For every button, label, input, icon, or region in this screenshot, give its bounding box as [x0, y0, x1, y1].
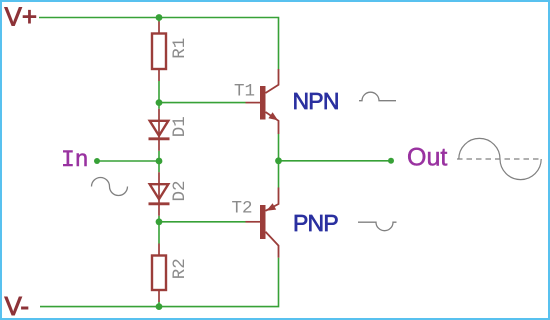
wire R1 to T1 base node	[158, 81, 160, 103]
wire T1 base	[159, 102, 246, 104]
resistor R1	[152, 22, 166, 82]
sine wave symbol at Out: positive half	[459, 138, 500, 159]
wire Out output	[279, 160, 392, 162]
junction V- / R2	[156, 303, 163, 310]
wire T2 base	[159, 221, 246, 223]
net V+ rail wire	[39, 18, 279, 70]
net V- rail wire	[40, 258, 279, 307]
svg-text:V-: V-	[5, 291, 30, 320]
diode D1	[149, 109, 170, 151]
svg-text:V+: V+	[5, 2, 38, 32]
svg-text:D1: D1	[170, 116, 190, 137]
svg-text:T2: T2	[232, 199, 253, 219]
sine wave symbol at Out: dashed axis	[457, 158, 542, 160]
junction Out node	[275, 157, 282, 164]
svg-text:R2: R2	[170, 258, 190, 279]
svg-text:PNP: PNP	[293, 210, 338, 236]
junction T2 base node	[156, 218, 163, 225]
transistor T1 (NPN)	[246, 69, 279, 134]
svg-text:Out: Out	[407, 144, 447, 172]
svg-text:In: In	[61, 147, 89, 173]
sine symbol at In	[92, 178, 128, 196]
node In pin	[94, 158, 100, 164]
svg-text:T1: T1	[234, 82, 255, 102]
sine wave symbol at Out: negative half	[500, 159, 541, 180]
junction In node	[156, 158, 163, 165]
wire R2 to V- rail	[158, 302, 160, 307]
svg-text:R1: R1	[170, 38, 190, 59]
junction V+ / R1	[156, 14, 163, 21]
transistor T2 (PNP)	[246, 188, 279, 258]
wire In node to D2	[158, 161, 160, 172]
svg-text:D2: D2	[170, 180, 190, 201]
sine half-wave symbol at PNP	[358, 222, 397, 231]
wire D1 to In node	[158, 151, 160, 161]
junction T1 base node	[156, 99, 163, 106]
sine half-wave symbol at NPN	[359, 92, 396, 101]
wire In input	[97, 160, 159, 162]
wire T2 emitter to Out node	[278, 161, 280, 188]
diode D2	[149, 172, 170, 216]
wire T1 emitter to Out node	[278, 134, 280, 161]
wire T2 base node to R2	[158, 222, 160, 244]
svg-text:NPN: NPN	[293, 88, 339, 114]
node Out pin	[388, 158, 394, 164]
wire D2 to T2 base node	[158, 216, 160, 222]
wire V+ to R1	[158, 18, 160, 23]
resistor R2	[152, 244, 166, 303]
wire T1 base node to D1	[158, 103, 160, 109]
